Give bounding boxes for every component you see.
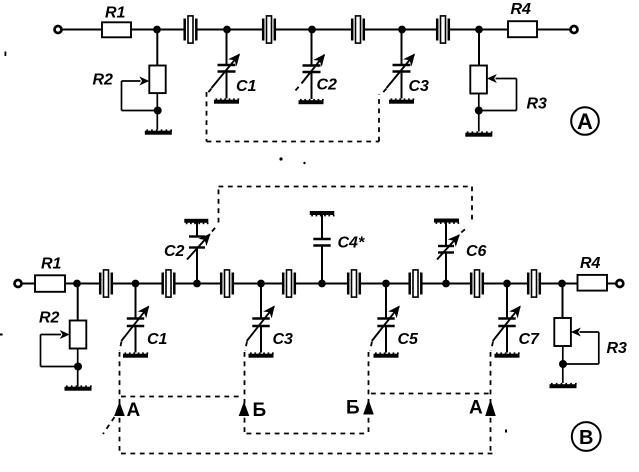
svg-text:C3: C3 <box>409 78 430 95</box>
svg-text:R2: R2 <box>39 310 60 327</box>
main wire segments (circuit B) <box>65 283 578 285</box>
svg-text:C6: C6 <box>466 243 487 260</box>
dashed coupling tail of C7 (circuit B) <box>491 342 493 352</box>
ground below R3 (circuit A) <box>465 131 492 136</box>
svg-text:R3: R3 <box>607 340 628 357</box>
dashed gang-coupling tail of C1 (circuit A) <box>206 89 212 96</box>
dashed gang coupling line C1-C3 (circuit A) <box>207 92 380 142</box>
svg-text:R3: R3 <box>527 96 548 113</box>
output terminal (circuit A) <box>571 26 578 33</box>
svg-text:C2: C2 <box>164 243 185 260</box>
ground below R2 (circuit A) <box>145 129 172 134</box>
svg-text:Б: Б <box>346 398 360 419</box>
wire R4 to output terminal (circuit A) <box>537 29 570 31</box>
junction at x=322 (circuit B) <box>318 280 326 288</box>
stray mark between circuits <box>279 157 305 164</box>
stray speck left margin (circuit A) <box>5 52 7 57</box>
svg-text:А: А <box>469 398 483 419</box>
ground below C3 (circuit A) <box>389 98 414 103</box>
junction at x=135.5 (circuit B) <box>132 280 140 288</box>
ground below C1 (circuit B) <box>123 352 148 357</box>
node 5 / junction for R3 branch (circuit A) <box>475 26 483 34</box>
quartz crystal 3 (circuit A) <box>352 16 364 43</box>
wire node down to R3 (circuit B) <box>562 284 564 319</box>
quartz crystal 3 (circuit B) <box>221 270 233 297</box>
node 4 / junction for C3 (circuit A) <box>398 26 406 34</box>
trimmer capacitor C5 (circuit B) <box>372 284 419 353</box>
svg-text:R1: R1 <box>105 5 126 22</box>
dashed coupling tail of C2 (circuit B) <box>212 225 218 232</box>
node 3 / junction for C2 (circuit A) <box>308 26 316 34</box>
wire crystal1 to node2 (circuit A) <box>196 29 264 31</box>
trimmer capacitor C6 (circuit B, to top ground) <box>437 221 487 283</box>
trimmer capacitor C2 (circuit B, to top ground) <box>164 222 211 284</box>
trimmer capacitor C1 (circuit A) <box>212 30 257 99</box>
wire node1 down to R2 <box>156 30 158 66</box>
svg-text:C5: C5 <box>398 331 420 348</box>
junction below R2 (circuit A) <box>154 107 162 115</box>
resistor R1 (circuit B) <box>35 256 65 292</box>
svg-text:C4*: C4* <box>338 235 365 252</box>
wire node1 down to R2 (circuit B) <box>77 284 79 321</box>
trimmer capacitor C2 (circuit A) <box>302 30 338 100</box>
junction at x=446 (circuit B) <box>442 280 450 288</box>
svg-text:В: В <box>579 427 593 449</box>
label B (first) <box>253 400 267 421</box>
svg-text:C1: C1 <box>236 78 257 95</box>
node 1 junction (circuit B) <box>73 280 81 288</box>
dashed coupling tail of C5 (circuit B) <box>370 342 372 352</box>
potentiometer R3 (circuit B) <box>554 318 627 383</box>
label A (right shaft) <box>469 398 483 419</box>
junction below R3 (circuit B) <box>559 360 567 368</box>
svg-text:Б: Б <box>253 400 267 421</box>
dashed horizontal A1-B1 top link <box>121 396 243 398</box>
dashed coupling tail of C2 (circuit A) <box>296 84 302 91</box>
junction at x=197 (circuit B) <box>193 280 201 288</box>
shaft arrow B2 <box>363 400 374 415</box>
svg-text:R4: R4 <box>511 1 532 18</box>
resistor R4 (circuit B) <box>578 255 608 291</box>
label B (second) <box>346 398 360 419</box>
wire R1 to node 1 (circuit A) <box>131 29 185 31</box>
top ground above C6 (circuit B) <box>434 219 459 224</box>
shaft arrow B1 <box>239 402 250 417</box>
potentiometer R2 (circuit B) <box>39 310 86 387</box>
trimmer capacitor C3 (circuit A) <box>387 30 430 99</box>
potentiometer R2 (circuit A) <box>93 66 166 130</box>
node 2 / junction for C1 (circuit A) <box>223 26 231 34</box>
dashed shaft line A1 below C1 (circuit B) <box>119 352 121 454</box>
quartz crystal 1 (circuit B) <box>100 270 112 297</box>
dashed coupling tail of C3 (circuit B) <box>245 342 247 352</box>
stray speck near circled B <box>0 334 507 433</box>
ground below R2 (circuit B) <box>65 385 92 390</box>
quartz crystal 2 (circuit B) <box>163 270 175 297</box>
wire crystal4 to node5 (circuit A) <box>448 29 508 31</box>
trimmer capacitor C7 (circuit B) <box>493 284 540 353</box>
junction at x=386 (circuit B) <box>382 280 390 288</box>
quartz crystal 6 (circuit B) <box>410 270 422 297</box>
resistor R4 (circuit A) <box>508 1 537 37</box>
node 1 / junction (circuit A) <box>153 26 161 34</box>
junction at x=562 (circuit B) <box>558 280 566 288</box>
dashed horizontal B2-A2 top link <box>371 393 490 395</box>
circled label A <box>571 107 599 135</box>
svg-text:R2: R2 <box>93 72 114 89</box>
dashed diagonal off A1 <box>103 417 115 434</box>
quartz crystal 7 (circuit B) <box>471 270 483 297</box>
top ground above C4 (circuit B) <box>310 211 335 216</box>
wire crystal2 to node3 (circuit A) <box>274 29 352 31</box>
quartz crystal 1 (circuit A) <box>185 16 197 43</box>
ground below C2 (circuit A) <box>299 99 324 104</box>
circled label B <box>572 422 601 451</box>
label A (left shaft) <box>127 400 141 421</box>
circuit A input terminal <box>55 26 103 33</box>
quartz crystal 5 (circuit B) <box>348 270 360 297</box>
svg-text:R4: R4 <box>580 255 601 272</box>
junction at x=261 (circuit B) <box>257 280 265 288</box>
output terminal (circuit B) <box>616 280 623 287</box>
ground below C1 (circuit A) <box>214 98 239 103</box>
dashed horizontal B1-B2 bottom link <box>247 433 369 435</box>
shaft arrow A1 <box>114 402 125 417</box>
junction at x=507 (circuit B) <box>503 280 511 288</box>
ground below C7 (circuit B) <box>495 352 520 357</box>
resistor R1 (circuit A) <box>102 5 131 38</box>
top ground above C2 (circuit B) <box>184 219 208 224</box>
dashed coupling tail of C6 (circuit B) <box>461 227 467 233</box>
dashed shaft line A2 below C7 (circuit B) <box>490 352 492 453</box>
svg-text:C3: C3 <box>273 331 294 348</box>
ground below C3 (circuit B) <box>249 352 274 357</box>
svg-text:C1: C1 <box>147 331 168 348</box>
circuit B input terminal <box>15 280 36 287</box>
dashed shaft line B1 below C3 (circuit B) <box>244 352 246 434</box>
top dashed gang coupling line C2-C6 (circuit B) <box>219 187 473 223</box>
junction below R2 (circuit B) <box>74 363 82 371</box>
ground below C5 (circuit B) <box>374 352 399 357</box>
svg-text:R1: R1 <box>41 256 62 273</box>
trimmer capacitor C1 (circuit B) <box>121 284 167 353</box>
svg-text:A: A <box>577 109 593 134</box>
dashed coupling tail of C1 (circuit B) <box>120 342 122 352</box>
potentiometer R3 (circuit A) <box>470 66 547 132</box>
quartz crystal 4 (circuit B) <box>283 270 295 297</box>
dashed shaft line B2 below C5 (circuit B) <box>368 352 370 434</box>
junction below R3 (circuit A) <box>475 107 483 115</box>
wire R1 to node1 (circuit B) <box>65 283 100 285</box>
wire crystal3 to node4 (circuit A) <box>363 29 437 31</box>
fixed capacitor C4* (circuit B) <box>313 214 365 284</box>
quartz crystal 2 (circuit A) <box>263 16 275 43</box>
dashed coupling tail of C3 (circuit A) <box>380 89 386 96</box>
ground below R3 (circuit B) <box>550 383 577 388</box>
svg-text:А: А <box>127 400 141 421</box>
svg-text:C7: C7 <box>519 331 541 348</box>
trimmer capacitor C3 (circuit B) <box>247 284 293 353</box>
shaft arrow A2 <box>485 400 496 417</box>
wire R4 to output terminal (circuit B) <box>607 283 616 285</box>
dashed bottom link A1-A2 <box>121 453 493 455</box>
wire node5 down to R3 (circuit A) <box>478 30 480 66</box>
svg-text:C2: C2 <box>317 77 338 94</box>
quartz crystal 8 (circuit B) <box>528 270 540 297</box>
quartz crystal 4 (circuit A) <box>437 16 449 43</box>
